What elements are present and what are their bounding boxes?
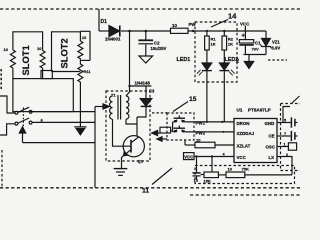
svg-text:XZLAT: XZLAT xyxy=(237,144,251,149)
dashed box 11 (converter block) xyxy=(106,91,150,161)
resistor (zigzag) slot2 right contact xyxy=(78,41,83,60)
switch SW-b xyxy=(15,118,32,125)
resistor R11 (zigzag vertical) xyxy=(78,60,83,82)
svg-text:PT8A97LP: PT8A97LP xyxy=(248,108,271,113)
vertical wire x=95 down to bottom border xyxy=(94,107,96,188)
LED2 xyxy=(219,50,229,71)
svg-text:R11: R11 xyxy=(84,69,92,74)
junction node R1 top xyxy=(206,30,208,32)
wire box2 top to riser xyxy=(80,30,90,32)
svg-text:CE: CE xyxy=(269,134,275,139)
svg-text:LED1: LED1 xyxy=(177,57,191,63)
snubber diode D3 xyxy=(137,86,152,117)
svg-text:1K: 1K xyxy=(211,42,216,47)
zener diode VZ1 xyxy=(261,31,272,55)
wire button1 to IC pin1 xyxy=(186,121,234,123)
junction LED2 wire xyxy=(221,121,223,123)
diode D1 xyxy=(109,26,130,37)
svg-text:C2: C2 xyxy=(154,41,160,46)
second bottom dashed line xyxy=(190,194,300,196)
bottom dashed border of figure xyxy=(0,187,300,189)
leader line top right xyxy=(292,96,300,103)
svg-text:C3: C3 xyxy=(149,89,155,94)
transformer T1 xyxy=(110,95,129,120)
junction node resistor xyxy=(211,155,213,157)
svg-text:OSC: OSC xyxy=(266,145,276,150)
dashed box 15 (button block) xyxy=(167,113,194,140)
svg-text:D1: D1 xyxy=(101,19,108,25)
svg-text:LED2: LED2 xyxy=(225,57,239,63)
wire VCC node down to R7 xyxy=(211,157,213,172)
left dashed border upper segment xyxy=(0,69,2,91)
svg-text:SLOT1: SLOT1 xyxy=(20,45,31,75)
dashed box 16 (oscillator) xyxy=(281,104,301,171)
LED1 cathode wire down to pin wire xyxy=(206,71,208,122)
pin wire CE xyxy=(277,135,291,137)
svg-text:10: 10 xyxy=(196,138,201,143)
svg-text:75K: 75K xyxy=(242,167,249,172)
resistor R8 (box) xyxy=(218,172,292,178)
dashed box 14 (LED indicator block) xyxy=(195,22,237,82)
wire switch1 to transformer arrow xyxy=(32,111,95,113)
wire button2 to IC pin2 xyxy=(186,131,234,133)
junction node cap xyxy=(195,155,197,157)
svg-text:LX: LX xyxy=(269,155,275,160)
capacitor C6 xyxy=(291,131,297,141)
battery compartment rectangle xyxy=(13,79,73,112)
svg-text:VCC: VCC xyxy=(237,155,247,160)
node label 14 xyxy=(0,0,1,1)
wire transformer secondary bottom to collector node xyxy=(126,119,137,124)
resistor (zigzag) slot1 left contact xyxy=(10,50,15,68)
svg-text:PW1: PW1 xyxy=(196,121,206,126)
dashed stub left of box 15 xyxy=(152,112,167,114)
button common vertical xyxy=(172,122,174,132)
push button PB1 xyxy=(173,115,186,122)
svg-text:Q1: Q1 xyxy=(138,159,144,164)
svg-text:10: 10 xyxy=(37,46,42,51)
top dashed border of figure xyxy=(0,8,300,10)
leader line for 11 xyxy=(152,168,172,185)
wire rail D1 to resistor xyxy=(130,30,171,32)
wire main rail y=31 xyxy=(99,30,109,32)
LED2 emission arrows xyxy=(229,70,235,76)
svg-text:GND: GND xyxy=(265,121,275,126)
LED1 xyxy=(202,50,212,71)
capacitor C1 (electrolytic) xyxy=(239,31,253,55)
wire up to LX pin xyxy=(277,157,292,175)
svg-text:1: 1 xyxy=(284,143,286,147)
svg-text:DRON: DRON xyxy=(237,121,250,126)
svg-text:15: 15 xyxy=(189,96,197,103)
resistor R2 (vertical box style) xyxy=(222,31,227,50)
junction node at x=193 xyxy=(192,30,194,32)
dashed box around RC network xyxy=(195,166,295,184)
resistor R5 (box) with left arrow xyxy=(152,127,173,135)
svg-text:70V: 70V xyxy=(252,47,259,52)
junction node R2 top xyxy=(223,30,225,32)
resistor R6 (box) to IC pin3 xyxy=(185,140,234,148)
VCC terminal stub xyxy=(244,26,246,31)
junction node at x=145.8 xyxy=(145,30,148,33)
oscillator loop corner wire xyxy=(283,107,290,123)
svg-text:VCC: VCC xyxy=(240,22,250,27)
emitter wire down xyxy=(122,155,125,168)
push button PB2 xyxy=(173,125,186,131)
svg-text:XZDDAJ: XZDDAJ xyxy=(237,131,255,136)
svg-text:C1: C1 xyxy=(255,41,261,46)
svg-text:10: 10 xyxy=(172,23,177,28)
label R1 value xyxy=(211,37,217,47)
svg-text:1N4148: 1N4148 xyxy=(135,81,151,86)
capacitor C2 branch xyxy=(138,31,153,56)
svg-text:1u: 1u xyxy=(194,178,199,183)
jog wire with arrow into transformer xyxy=(95,104,109,109)
short dashed segment right of zener area xyxy=(268,59,287,61)
label R2 value xyxy=(228,37,234,47)
ground (bar style) at R11 bottom xyxy=(74,122,86,135)
crystal Y1 xyxy=(277,143,297,150)
LED2 cathode wire down to pin wire xyxy=(223,71,225,122)
wire rail junction down to transformer secondary xyxy=(126,31,130,96)
svg-text:10u/25V: 10u/25V xyxy=(151,46,167,51)
junction LED1 wire xyxy=(206,121,208,123)
ground rail under C1/VZ1 xyxy=(244,54,267,56)
IC U1 body xyxy=(234,119,277,163)
IC right pin wires xyxy=(277,122,291,124)
LED1 emission arrows xyxy=(197,70,203,76)
svg-text:VCC: VCC xyxy=(184,155,193,160)
leader line for 14 xyxy=(211,20,228,28)
capacitor C4 xyxy=(192,157,200,180)
wire y=86 to snubber diode xyxy=(130,85,152,87)
left dashed border segment xyxy=(1,150,3,188)
svg-text:SLOT2: SLOT2 xyxy=(59,38,70,68)
svg-text:5: 5 xyxy=(284,119,286,123)
svg-text:15K: 15K xyxy=(204,179,211,184)
VCC pin wire xyxy=(194,156,234,158)
connector tab box xyxy=(41,71,52,79)
ganged switch link (dashed) xyxy=(22,108,24,131)
svg-text:10: 10 xyxy=(4,47,9,52)
collector wire xyxy=(136,117,138,136)
svg-text:PW2: PW2 xyxy=(196,130,206,135)
actuator arrow (up) xyxy=(19,127,25,143)
svg-text:VZ1: VZ1 xyxy=(272,40,280,45)
svg-text:11: 11 xyxy=(142,188,149,195)
leader line for 15 xyxy=(173,102,188,112)
capacitor C5 xyxy=(291,117,297,127)
wire to switch 2 pole xyxy=(0,124,15,135)
svg-text:3.9V: 3.9V xyxy=(272,46,281,51)
svg-text:1K: 1K xyxy=(228,42,233,47)
switch SW-a xyxy=(15,107,32,114)
resistor R3 (box style) on rail xyxy=(171,28,189,33)
battery slot box SLOT2 xyxy=(52,32,81,72)
riser wire to D1 anode rail xyxy=(89,31,91,60)
wire transformer primary bottom to base xyxy=(113,119,132,146)
tick on pin2 wire xyxy=(223,131,225,133)
resistor (zigzag) slot1 right contact xyxy=(40,51,45,69)
wire to switch 1 pole xyxy=(0,96,15,113)
junction node y=86 xyxy=(128,85,130,87)
svg-text:1N4001: 1N4001 xyxy=(105,37,121,42)
VCC boxed label left xyxy=(184,153,195,160)
wire arrow base to right xyxy=(23,142,96,144)
ground (filled triangle) xyxy=(244,55,253,69)
svg-text:14: 14 xyxy=(228,12,237,21)
wire switch2 to ground node xyxy=(32,121,95,123)
arrow marker at 15-box bottom xyxy=(157,137,167,141)
wire slot2 node to D1 rail riser xyxy=(80,59,90,61)
ground (open triangle) under C2 xyxy=(139,56,153,63)
svg-text:7: 7 xyxy=(284,132,286,136)
svg-text:U1: U1 xyxy=(237,108,243,113)
ground (bar style) under Q1 xyxy=(114,169,128,176)
svg-text:PW: PW xyxy=(189,22,197,27)
wire from top border down to D1 anode rail xyxy=(98,9,100,31)
wire resistor to VCC node xyxy=(188,30,266,32)
svg-text:10: 10 xyxy=(228,167,233,172)
resistor R1 (vertical box style) xyxy=(205,31,210,50)
resistor R7 (box) xyxy=(201,172,219,178)
battery slot box SLOT1 xyxy=(13,32,43,79)
svg-text:T1: T1 xyxy=(111,93,116,98)
junction node at x=129.5 xyxy=(128,30,131,33)
transistor Q1 xyxy=(123,136,144,157)
wire R11 down to ground node xyxy=(79,82,81,122)
svg-text:2: 2 xyxy=(286,153,288,157)
svg-text:10: 10 xyxy=(82,35,87,40)
